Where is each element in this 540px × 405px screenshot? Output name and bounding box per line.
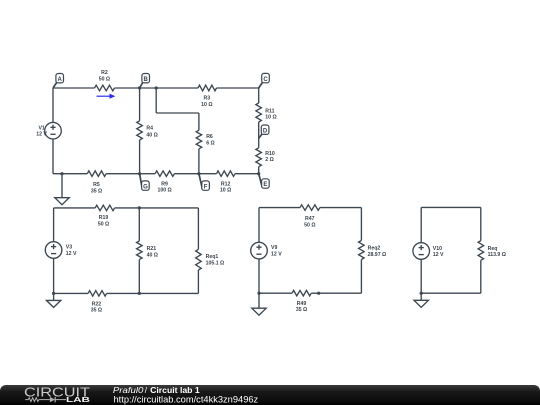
- wire node B down: [139, 88, 141, 121]
- wire R12 to node E: [235, 173, 259, 175]
- wire junction to R3: [156, 87, 198, 89]
- wire right upper circuit 2: [197, 208, 199, 249]
- wire left circuit 2 lower: [53, 258, 55, 293]
- wire right upper circuit 3: [360, 208, 362, 241]
- wire top-left circuit 3: [259, 207, 300, 209]
- node A: [53, 74, 64, 89]
- svg-text:113.9 Ω: 113.9 Ω: [488, 252, 506, 258]
- svg-text:100 Ω: 100 Ω: [157, 187, 171, 193]
- resistor R3: [198, 85, 217, 108]
- junction dot top branch: [155, 86, 158, 89]
- svg-text:40 Ω: 40 Ω: [147, 253, 158, 259]
- wire branch down from junction: [155, 88, 157, 113]
- wire left circuit 2 upper: [53, 208, 55, 242]
- junction dot circuit2 ground: [52, 292, 55, 295]
- resistor R49: [292, 290, 311, 313]
- svg-text:R10: R10: [265, 151, 275, 157]
- svg-text:R21: R21: [147, 246, 157, 252]
- junction dot node F: [197, 172, 200, 175]
- resistor Req1: [196, 249, 224, 270]
- wire F to R12: [199, 173, 217, 175]
- wire bottom-left circuit 2: [54, 292, 89, 294]
- junction dot node G: [138, 172, 141, 175]
- wire R5 to node G: [106, 173, 139, 175]
- junction dot circuit2 top: [138, 206, 141, 209]
- svg-text:V9: V9: [271, 245, 277, 251]
- wire top circuit 4: [421, 206, 481, 208]
- ground for circuit 2: [46, 293, 60, 307]
- wire node C down: [258, 88, 260, 103]
- svg-text:V1: V1: [38, 125, 44, 131]
- voltage source V10: [413, 243, 444, 260]
- bottom rail wire A-side: [53, 173, 87, 175]
- svg-text:R6: R6: [206, 134, 213, 140]
- svg-text:35 Ω: 35 Ω: [91, 188, 102, 194]
- wire R19 to middle node: [115, 207, 140, 209]
- wire right lower circuit 4: [480, 260, 482, 293]
- wire middle to right top: [139, 207, 198, 209]
- ground for circuit 3: [252, 293, 266, 315]
- wire R6 to node F: [198, 149, 200, 174]
- resistor R4: [137, 121, 158, 140]
- wire left circuit 4 lower: [420, 259, 422, 293]
- junction dot circuit3 ground: [257, 292, 260, 295]
- junction dot circuit2 bottom: [138, 292, 141, 295]
- wire right lower circuit 2: [197, 270, 199, 293]
- wire top-left circuit 2: [54, 207, 96, 209]
- voltage source V9: [251, 242, 283, 259]
- svg-text:50 Ω: 50 Ω: [304, 222, 315, 228]
- svg-text:50 Ω: 50 Ω: [98, 221, 109, 227]
- wire R4 to node G: [139, 140, 141, 174]
- resistor R47: [300, 205, 320, 229]
- svg-text:28.97 Ω: 28.97 Ω: [368, 252, 387, 258]
- wire branch horizontal: [156, 112, 199, 114]
- wire node A to R2: [53, 87, 95, 89]
- wire left circuit 3 upper: [258, 208, 260, 243]
- svg-text:R4: R4: [146, 126, 153, 132]
- junction dot node E: [257, 172, 260, 175]
- svg-text:35 Ω: 35 Ω: [91, 308, 102, 314]
- wire right lower circuit 3: [360, 260, 362, 294]
- wire R47 to right circuit 3: [320, 207, 362, 209]
- svg-text:12 V: 12 V: [433, 252, 444, 258]
- svg-text:V10: V10: [433, 246, 442, 252]
- resistor R6: [196, 130, 215, 149]
- node F: [199, 174, 210, 191]
- wire bottom-left circuit 3: [259, 292, 292, 294]
- resistor R21: [137, 241, 158, 260]
- svg-text:LAB: LAB: [66, 395, 91, 404]
- svg-text:Req2: Req2: [368, 246, 381, 252]
- svg-text:G: G: [143, 184, 148, 190]
- svg-text:50 Ω: 50 Ω: [99, 76, 110, 82]
- resistor R11: [256, 103, 277, 122]
- voltage source V1: [36, 122, 61, 139]
- junction dot circuit4 ground: [420, 292, 423, 295]
- junction dot node B: [138, 86, 141, 89]
- svg-text:40 Ω: 40 Ω: [146, 132, 157, 138]
- resistor R9: [155, 171, 174, 194]
- svg-text:E: E: [263, 182, 267, 188]
- svg-text:105.1 Ω: 105.1 Ω: [206, 261, 225, 267]
- svg-text:http://circuitlab.com/ct4kk3zn: http://circuitlab.com/ct4kk3zn9496z: [114, 394, 259, 404]
- node G: [140, 174, 150, 191]
- node C: [259, 73, 270, 88]
- resistor R19: [95, 205, 114, 227]
- resistor R10: [256, 148, 275, 167]
- svg-text:Req: Req: [488, 246, 498, 252]
- svg-text:R2: R2: [101, 70, 108, 76]
- svg-text:12 V: 12 V: [36, 132, 47, 138]
- wire middle lower circuit 2: [138, 260, 140, 294]
- resistor Req: [478, 241, 506, 261]
- svg-text:35 Ω: 35 Ω: [296, 307, 307, 313]
- svg-text:D: D: [263, 128, 268, 134]
- wire R3 to node C: [217, 87, 259, 89]
- svg-text:R3: R3: [203, 96, 210, 102]
- svg-text:12 V: 12 V: [66, 251, 77, 257]
- wire V1 to bottom rail: [52, 139, 54, 174]
- wire left circuit 3 lower: [258, 259, 260, 293]
- wire R2 to node B: [115, 87, 140, 89]
- wire R49 to right circuit 3: [311, 292, 361, 294]
- wire R22 to right circuit 2: [107, 292, 199, 294]
- current arrow for R2: [97, 94, 116, 99]
- node D: [258, 125, 269, 139]
- wire left circuit 4 upper: [420, 207, 422, 242]
- svg-text:10 Ω: 10 Ω: [201, 102, 212, 108]
- svg-text:Req1: Req1: [206, 254, 219, 260]
- svg-text:R47: R47: [305, 216, 315, 222]
- wire R11 to node D: [258, 122, 260, 148]
- svg-text:R11: R11: [265, 108, 274, 114]
- node B: [140, 74, 150, 89]
- svg-text:R19: R19: [99, 215, 109, 221]
- voltage source V3: [45, 242, 77, 259]
- svg-text:R5: R5: [93, 182, 100, 188]
- junction dot ground tap: [60, 172, 63, 175]
- svg-text:F: F: [204, 184, 208, 190]
- wire branch to R6: [198, 113, 200, 130]
- svg-text:A: A: [58, 77, 63, 83]
- wire node B to junction: [140, 87, 157, 89]
- wire G to R9: [140, 173, 156, 175]
- wire right upper circuit 4: [480, 207, 482, 240]
- CircuitLab logo trace with resistor and diode: [28, 398, 39, 402]
- svg-text:C: C: [263, 77, 268, 83]
- ground for circuit 4: [414, 293, 428, 307]
- wire R10 to node E: [258, 167, 260, 174]
- wire R9 to node F: [174, 173, 199, 175]
- wire node A to V1: [52, 88, 54, 122]
- wire middle upper circuit 2: [138, 208, 140, 241]
- resistor R22: [88, 291, 107, 314]
- svg-text:2 Ω: 2 Ω: [265, 157, 274, 163]
- wire bottom circuit 4: [421, 292, 481, 294]
- resistor Req2: [359, 241, 387, 260]
- svg-text:10 Ω: 10 Ω: [220, 187, 231, 193]
- svg-text:6 Ω: 6 Ω: [206, 141, 215, 147]
- svg-text:12 V: 12 V: [271, 252, 282, 258]
- ground for circuit 1: [55, 174, 69, 205]
- node E: [259, 174, 270, 189]
- svg-text:10 Ω: 10 Ω: [265, 115, 276, 121]
- svg-text:R22: R22: [92, 301, 102, 307]
- resistor R12: [217, 171, 236, 194]
- resistor R2: [95, 70, 115, 91]
- junction dot circuit3 net: [317, 292, 320, 295]
- svg-text:V3: V3: [66, 245, 72, 251]
- resistor R5: [87, 171, 106, 195]
- svg-text:B: B: [144, 77, 149, 83]
